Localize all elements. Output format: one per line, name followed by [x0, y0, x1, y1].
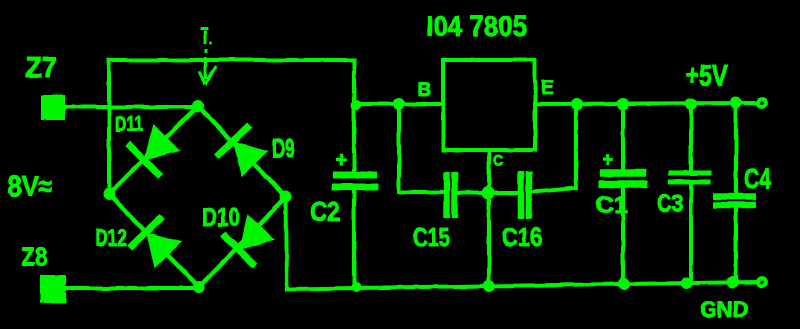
capacitor C4 — [713, 103, 771, 282]
node bridge bottom — [193, 281, 205, 293]
terminal Z8 — [21, 242, 66, 303]
svg-text:C: C — [493, 152, 504, 169]
wire Z7 to bridge top node — [64, 105, 198, 109]
node bridge right — [280, 191, 292, 203]
capacitor C1 — [595, 104, 648, 284]
capacitor C3 — [657, 104, 711, 283]
node C2 bottom junction — [351, 282, 361, 292]
node C pin bypass junction — [482, 187, 495, 200]
wire bridge arm top-left — [109, 106, 198, 194]
diode D12 — [95, 216, 182, 268]
node B rail junction — [393, 98, 405, 110]
svg-text:D11: D11 — [115, 113, 143, 136]
svg-text:C3: C3 — [657, 190, 683, 218]
wire Z8 to bridge bottom node — [66, 286, 199, 290]
wire bottom ground rail — [287, 282, 757, 289]
node C3 bottom junction — [681, 277, 693, 289]
wire top-right corner drop — [352, 60, 356, 104]
wire top horizontal — [109, 58, 354, 62]
svg-text:+: + — [602, 150, 613, 171]
node E rail junction — [571, 98, 583, 110]
wire C pin to C16 — [489, 191, 517, 195]
IC I04 7805 voltage regulator — [426, 11, 535, 150]
terminal +5V output circle — [758, 99, 766, 107]
svg-text:D12: D12 — [95, 225, 127, 252]
svg-text:C15: C15 — [413, 222, 450, 252]
wire left vertical — [107, 60, 111, 194]
svg-text:C16: C16 — [502, 222, 542, 252]
wire bridge arm bottom-left — [109, 194, 199, 287]
svg-text:D10: D10 — [202, 204, 240, 232]
wire bypass left drop — [397, 104, 401, 192]
svg-text:E: E — [541, 78, 554, 99]
node C pin ground junction — [483, 280, 495, 292]
wire right node drop — [286, 197, 287, 288]
capacitor C16 — [502, 171, 542, 252]
diode D11 — [115, 113, 180, 176]
svg-text:C2: C2 — [310, 196, 340, 227]
diode D10 — [202, 204, 275, 266]
node C2 top junction — [351, 100, 361, 110]
wire C16 to riser — [533, 188, 576, 192]
node bridge top — [192, 100, 204, 112]
svg-text:8V≈: 8V≈ — [8, 171, 52, 203]
svg-text:GND: GND — [700, 297, 748, 322]
svg-text:+5V: +5V — [685, 60, 729, 92]
svg-text:Z8: Z8 — [21, 242, 47, 272]
svg-text:C1: C1 — [595, 192, 628, 219]
terminal Z7 — [25, 52, 65, 120]
wire rail C2 to regulator B — [354, 102, 443, 106]
wire C pin vertical — [487, 150, 491, 286]
node C4 top junction — [730, 97, 742, 109]
svg-text:C4: C4 — [744, 163, 771, 194]
wire bridge arm top-right — [198, 106, 286, 197]
svg-text:Z7: Z7 — [25, 52, 57, 84]
svg-text:I04 7805: I04 7805 — [426, 11, 527, 43]
node bridge left — [103, 188, 115, 200]
svg-text:B: B — [418, 80, 432, 101]
diode D9 — [217, 125, 296, 177]
wire bypass right riser — [574, 104, 578, 188]
node C1 bottom junction — [618, 278, 630, 290]
wire bridge arm bottom-right — [199, 197, 286, 287]
svg-text:+: + — [335, 149, 347, 171]
svg-text:D9: D9 — [272, 133, 295, 163]
arrow dashed input indicator — [199, 29, 216, 85]
wire rail regulator E to +5V terminal — [535, 103, 757, 104]
wire C15 to C pin — [458, 191, 489, 195]
node C3 top junction — [685, 98, 697, 110]
capacitor C2 — [310, 104, 378, 288]
capacitor C15 — [413, 172, 455, 252]
terminal GND output circle — [758, 278, 766, 286]
node C4 bottom junction — [727, 276, 739, 288]
wire bypass left to C15 — [399, 190, 443, 194]
node C1 top junction — [617, 98, 629, 110]
